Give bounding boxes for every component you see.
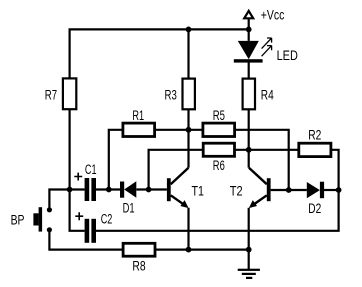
ground xyxy=(238,269,260,279)
wire R2 right drop to D2 cathode node xyxy=(331,150,339,190)
wire R1 to R5 xyxy=(155,129,203,131)
resistor R7 xyxy=(63,78,76,109)
LED D3 xyxy=(234,41,263,63)
svg-text:LED: LED xyxy=(277,48,299,63)
svg-text:R7: R7 xyxy=(45,88,57,103)
resistor R2 xyxy=(299,143,331,156)
resistor R8 xyxy=(123,243,155,256)
wire R1 left drop xyxy=(109,130,123,190)
node D2-R2 xyxy=(336,187,342,193)
wire top rail xyxy=(70,29,250,78)
wire BP bottom to R8 line xyxy=(49,232,123,250)
wire node A to C1 left and BP top xyxy=(49,190,84,208)
svg-text:C2: C2 xyxy=(101,211,113,226)
node ground xyxy=(246,247,252,253)
node R7-C1-BP xyxy=(67,187,73,193)
wire R4 bottom to T2 collector xyxy=(248,109,250,167)
svg-text:R4: R4 xyxy=(261,88,274,103)
node R1-R5-collector T1 xyxy=(186,127,192,133)
push button BP xyxy=(33,207,52,232)
svg-text:R8: R8 xyxy=(132,258,145,273)
wire R4 top to LED xyxy=(248,63,250,79)
diode D2 xyxy=(307,182,324,199)
node R1-base line xyxy=(106,187,112,193)
node R6-base T1 xyxy=(146,187,152,193)
svg-text:R5: R5 xyxy=(213,108,225,123)
wire R6 left drop to T1 base xyxy=(149,150,204,190)
wire T2 base from node xyxy=(271,189,289,191)
wire R7 bottom to node A xyxy=(68,109,70,189)
wire Vcc to LED xyxy=(248,18,250,41)
wire D1 to T1 base xyxy=(136,188,167,190)
capacitor C1 xyxy=(85,178,96,201)
power +Vcc symbol xyxy=(244,11,253,18)
wire node A down to C2 left xyxy=(70,190,85,231)
svg-text:D2: D2 xyxy=(308,201,321,216)
node T2 base-R5-D2 xyxy=(286,187,292,193)
wire R3 top xyxy=(187,29,189,78)
resistor R1 xyxy=(123,123,155,136)
transistor T2 xyxy=(249,168,271,208)
resistor R6 xyxy=(203,143,234,156)
svg-text:R3: R3 xyxy=(165,88,177,103)
svg-text:T1: T1 xyxy=(192,184,205,199)
wire C1 right to D1 xyxy=(96,188,120,190)
svg-text:BP: BP xyxy=(11,213,25,228)
wire R3 bottom to T1 collector xyxy=(187,109,189,167)
wire R8 to ground node xyxy=(155,249,249,251)
svg-text:D1: D1 xyxy=(123,200,135,215)
LED light arrows xyxy=(262,38,272,56)
svg-text:T2: T2 xyxy=(230,184,243,199)
svg-text:C1: C1 xyxy=(85,162,97,177)
resistor R4 xyxy=(243,79,255,110)
resistor R3 xyxy=(183,79,195,110)
svg-text:R6: R6 xyxy=(213,158,225,173)
wire R6 right to R2 xyxy=(235,149,299,151)
node rail-R3 xyxy=(186,27,192,33)
svg-text:R1: R1 xyxy=(132,108,144,123)
wire T2 emitter down to ground xyxy=(248,208,250,250)
svg-text:R2: R2 xyxy=(308,127,321,142)
transistor T1 xyxy=(167,168,189,208)
node R6-collector T2 xyxy=(246,147,252,153)
diode D1 xyxy=(120,181,136,198)
wire node to D2 xyxy=(289,189,307,191)
capacitor C2 xyxy=(85,219,96,243)
wire D2 node down to C2 line xyxy=(96,190,339,231)
plus sign C1 xyxy=(74,173,82,181)
node rail-Vcc xyxy=(246,27,252,33)
wire T1 emitter down xyxy=(187,208,189,250)
svg-text:+Vcc: +Vcc xyxy=(261,8,285,23)
node T1 emitter-R8 xyxy=(186,247,192,253)
wire D2 to R2 right drop xyxy=(324,189,339,191)
wire R5 right to T2 base node xyxy=(235,130,289,190)
plus sign C2 xyxy=(75,212,83,220)
wire ground stem xyxy=(248,250,250,270)
resistor R5 xyxy=(203,123,235,136)
